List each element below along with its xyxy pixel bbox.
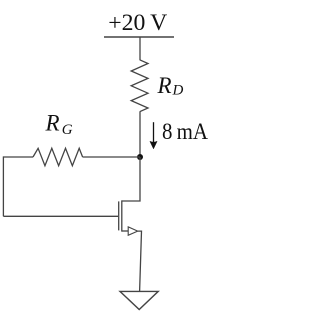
wire: source lead	[122, 230, 128, 232]
resistor RD	[131, 60, 148, 112]
wire: RG right lead to node	[83, 156, 140, 158]
ground	[120, 291, 158, 309]
resistor RG	[33, 148, 83, 165]
wire: rail to RD top	[139, 37, 141, 60]
transistor Q1: source arrow	[128, 227, 138, 235]
wire: source to ground	[138, 231, 142, 291]
svg-text:R: R	[45, 111, 60, 136]
svg-text:+20 V: +20 V	[108, 10, 167, 35]
node A (drain node dot)	[137, 154, 143, 160]
svg-text:8 mA: 8 mA	[162, 119, 208, 144]
wire: RD bottom to node	[139, 112, 141, 157]
wire: RG left lead	[3, 156, 33, 158]
current arrow 8 mA	[153, 122, 155, 146]
wire: drain bend	[122, 157, 140, 201]
wire: left vertical feedback wire	[2, 156, 4, 216]
transistor Q1: gate plate	[118, 201, 120, 230]
svg-text:G: G	[62, 122, 73, 138]
svg-text:R: R	[157, 73, 172, 98]
supply rail bar	[104, 36, 174, 38]
svg-text:D: D	[172, 83, 184, 99]
wire: gate lead	[3, 215, 118, 217]
transistor Q1: channel bar	[121, 200, 123, 231]
